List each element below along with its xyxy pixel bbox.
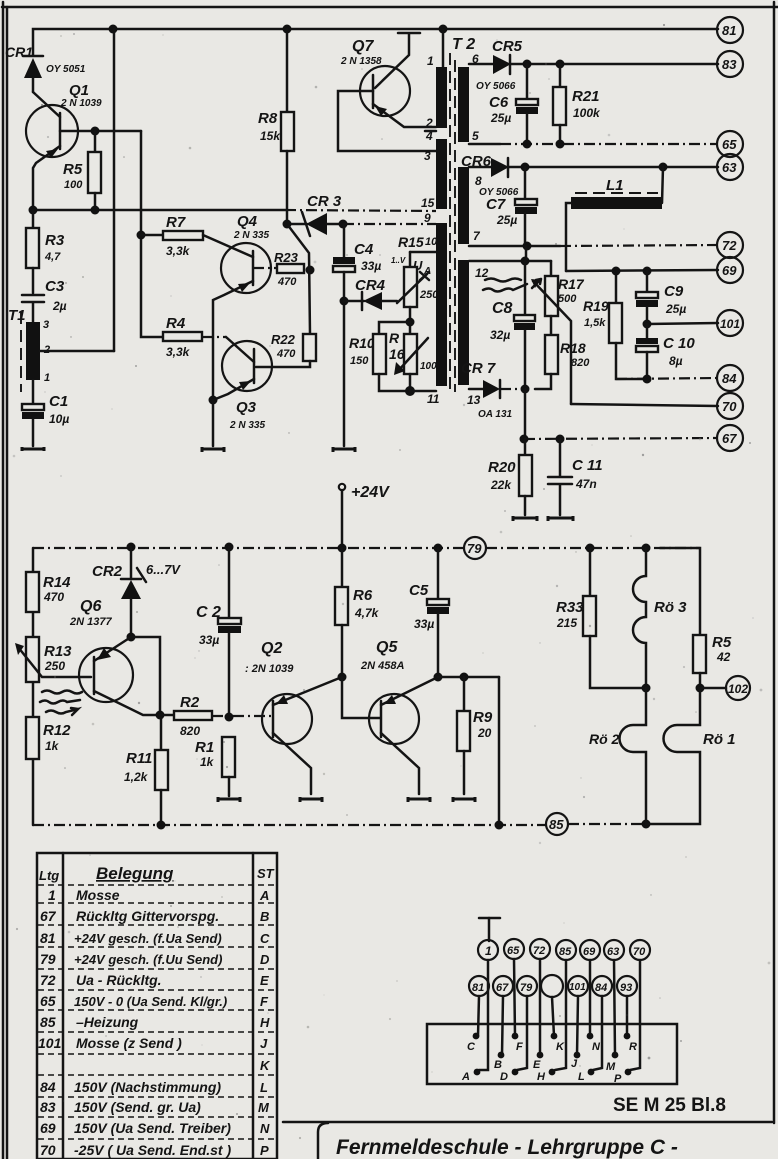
svg-text:R10: R10 (349, 335, 375, 351)
connector wire 1-A (479, 960, 488, 1070)
svg-text:83: 83 (40, 1099, 56, 1115)
diode CR6 (461, 153, 525, 198)
svg-text:93: 93 (620, 982, 632, 994)
svg-text:Q6: Q6 (80, 598, 101, 615)
svg-text:Ua - Rückltg.: Ua - Rückltg. (76, 972, 162, 988)
resistor R5 (63, 131, 101, 210)
junction R2 left node (156, 711, 165, 720)
svg-text:CR1: CR1 (5, 44, 33, 60)
resistor R8 (258, 29, 294, 224)
svg-text:+24V gesch. (f.Ua Send): +24V gesch. (f.Ua Send) (74, 931, 222, 946)
svg-text:R5: R5 (63, 161, 83, 178)
resistor R4 (163, 315, 254, 362)
connector wire 85-H (555, 960, 566, 1070)
svg-text:R2: R2 (180, 694, 200, 711)
heater Rö1 (646, 688, 736, 824)
terminal 72 (717, 232, 743, 258)
transformer T1 (8, 29, 114, 403)
connector circle 67 (493, 976, 513, 996)
transistor Q4 (213, 213, 271, 400)
table row 1 Mosse A (48, 887, 269, 903)
svg-text:70: 70 (633, 946, 646, 958)
junction CR4 node (340, 297, 349, 306)
svg-text:: 2N 1039: : 2N 1039 (245, 663, 294, 675)
capacitor C4 (333, 224, 381, 446)
svg-text:R6: R6 (353, 587, 373, 604)
T2 pin label 9 (424, 211, 431, 225)
diode CR4 (344, 277, 397, 310)
svg-text:84: 84 (40, 1079, 56, 1095)
table row 84 L (40, 1079, 268, 1095)
svg-text:C 10: C 10 (663, 335, 695, 352)
resistor R12 (26, 717, 71, 759)
svg-text:33µ: 33µ (199, 633, 219, 647)
svg-text:Fernmeldeschule - Lehrgruppe: Fernmeldeschule - Lehrgruppe C - (336, 1136, 678, 1159)
svg-text:R3: R3 (45, 232, 65, 249)
table row separators dashed (38, 885, 276, 1139)
svg-text:42: 42 (716, 650, 731, 664)
wire bus79 right corner to R5 (660, 548, 700, 635)
junction C11 top (556, 435, 565, 444)
T2 pin label 10 (425, 236, 438, 248)
table row 69 N (40, 1120, 270, 1136)
resistor R21 (553, 64, 601, 145)
junction CR7/C8/R18 (521, 385, 530, 440)
junction bus85 x646 (642, 820, 651, 829)
svg-text:2 N 335: 2 N 335 (229, 420, 265, 431)
terminal 79 (464, 537, 486, 559)
connector pin P (614, 1069, 631, 1085)
svg-text:F: F (260, 994, 269, 1009)
svg-text:70: 70 (40, 1142, 56, 1158)
svg-text:-25V ( Ua Send. End.st ): -25V ( Ua Send. End.st ) (74, 1142, 231, 1158)
connector circle 83 (617, 976, 637, 996)
table row 81 C (40, 930, 270, 946)
svg-text:2 N 335: 2 N 335 (233, 230, 269, 241)
terminal 70 (717, 393, 743, 419)
table row 85 H (40, 1014, 270, 1030)
junction C9 top (643, 267, 652, 276)
svg-text:R4: R4 (166, 315, 186, 332)
terminal 63 (717, 154, 743, 180)
svg-text:4,7k: 4,7k (354, 606, 380, 620)
connector pin J (571, 1052, 580, 1070)
junction C2/R1 node (225, 713, 234, 722)
svg-text:C7: C7 (486, 196, 506, 213)
table row K empty (260, 1058, 271, 1073)
svg-text:A: A (461, 1071, 470, 1083)
svg-text:R: R (629, 1041, 637, 1053)
svg-text:9: 9 (424, 211, 431, 225)
connector pin B (494, 1052, 504, 1071)
resistor R2 (160, 694, 273, 738)
capacitor C7 (486, 167, 537, 246)
svg-text:32µ: 32µ (490, 328, 510, 342)
heater Rö3 (633, 548, 687, 688)
svg-text:3: 3 (424, 149, 431, 163)
svg-text:3: 3 (43, 319, 49, 331)
svg-text:3,3k: 3,3k (166, 345, 191, 359)
connector circle 84 (592, 976, 612, 996)
svg-text:OY 5051: OY 5051 (46, 64, 86, 75)
svg-text:2N 458A: 2N 458A (360, 660, 404, 672)
wire CR2 node to R2 node (131, 637, 160, 715)
junction top bus x443 (439, 25, 448, 34)
svg-text:500: 500 (558, 293, 577, 305)
junction C10 bottom (643, 375, 652, 384)
svg-text:H: H (537, 1071, 546, 1083)
svg-text:20: 20 (477, 726, 492, 740)
svg-text:N: N (592, 1041, 601, 1053)
transformer T2 winding bar right 3 (pins 12-13) (458, 260, 469, 385)
svg-text:100k: 100k (573, 106, 601, 120)
svg-text:C1: C1 (49, 393, 68, 410)
svg-text:16: 16 (389, 346, 405, 362)
svg-text:84: 84 (595, 982, 607, 994)
ground below C4 (333, 447, 355, 452)
svg-text:C3: C3 (45, 278, 65, 295)
transistor Q3 (213, 341, 272, 431)
junction C5 bottom node (434, 673, 500, 682)
transformer T2 winding bar right 1 (pins 6-5) (458, 67, 469, 142)
transformer T2 core dashed (450, 53, 455, 392)
wire Q1 base drop x141 (141, 131, 163, 337)
svg-text:R: R (389, 330, 400, 346)
transformer T2 winding bar left 2 (pins 4-3) (436, 139, 447, 209)
svg-text:K: K (260, 1058, 271, 1073)
svg-text:E: E (260, 973, 269, 988)
connector pin E (533, 1052, 543, 1071)
terminal 83 (717, 51, 743, 77)
svg-text:84: 84 (722, 371, 737, 386)
svg-text:85: 85 (40, 1014, 56, 1030)
svg-text:Q5: Q5 (376, 639, 398, 656)
svg-text:65: 65 (722, 137, 737, 152)
wire 83 node (527, 63, 718, 66)
svg-text:6...7V: 6...7V (146, 562, 181, 577)
junction bus x342 (338, 544, 347, 553)
svg-text:R15: R15 (398, 234, 424, 250)
diode CR7 (461, 360, 525, 420)
svg-text:3,3k: 3,3k (166, 244, 191, 258)
transistor Q7 (338, 33, 436, 151)
svg-text:102: 102 (728, 682, 748, 696)
connector circle 101 (568, 976, 588, 996)
svg-text:70: 70 (722, 399, 737, 414)
svg-text:1..V: 1..V (391, 256, 406, 265)
junction bus85 x499 (495, 821, 504, 830)
table row 72 E (40, 972, 269, 988)
svg-text:2: 2 (425, 116, 433, 130)
wire bus 79 (33, 547, 700, 549)
svg-text:+24V gesch. (f.Uu Send): +24V gesch. (f.Uu Send) (74, 952, 222, 967)
connector wire 65-F (514, 959, 515, 1036)
svg-text:2N 1377: 2N 1377 (69, 616, 112, 628)
table row 67 Rückltg B (40, 908, 269, 924)
wire 67 node (524, 438, 718, 439)
svg-text:25µ: 25µ (665, 302, 686, 316)
svg-text:C6: C6 (489, 94, 509, 111)
junction bus x646 (642, 544, 651, 553)
connector circle 79 (517, 976, 537, 996)
wire 84 node (616, 378, 718, 379)
terminal +24V (339, 484, 390, 548)
svg-text:1: 1 (485, 944, 492, 958)
T2 pin label 11 (427, 392, 440, 406)
svg-text:1k: 1k (45, 739, 60, 753)
svg-text:1: 1 (44, 372, 50, 384)
junction y210 x33 (29, 206, 38, 215)
svg-text:C5: C5 (409, 582, 429, 599)
svg-text:L: L (260, 1080, 268, 1095)
svg-text:Mosse: Mosse (76, 887, 120, 903)
svg-text:150V (Nachstimmung): 150V (Nachstimmung) (74, 1079, 221, 1095)
svg-text:81: 81 (40, 930, 56, 946)
junction C9 bottom (643, 320, 652, 329)
svg-text:8µ: 8µ (669, 354, 683, 368)
svg-text:F: F (516, 1041, 523, 1053)
svg-text:1: 1 (48, 887, 56, 903)
border frame top (2, 6, 778, 9)
svg-text:C: C (467, 1041, 476, 1053)
svg-text:69: 69 (40, 1120, 56, 1136)
svg-text:1,2k: 1,2k (124, 770, 149, 784)
table Belegung frame (37, 853, 277, 1159)
resistor R23 (253, 250, 304, 288)
connector circle 69 (580, 940, 600, 960)
svg-text:4,7: 4,7 (44, 251, 61, 263)
svg-text:83: 83 (722, 57, 737, 72)
svg-text:2 N 1039: 2 N 1039 (60, 98, 102, 109)
connector box (427, 1024, 677, 1084)
capacitor C2 (196, 547, 241, 717)
svg-text:150V (Send. gr. Ua): 150V (Send. gr. Ua) (74, 1099, 201, 1115)
svg-text:470: 470 (276, 348, 296, 360)
resistor R20 (488, 439, 532, 515)
junction R5 bottom (696, 684, 727, 693)
svg-text:69: 69 (722, 263, 737, 278)
svg-text:T 2: T 2 (452, 36, 475, 53)
ground below R9 (453, 797, 475, 802)
svg-text:150V (Ua Send. Treiber): 150V (Ua Send. Treiber) (74, 1120, 231, 1136)
svg-text:R21: R21 (572, 88, 600, 105)
ground below R1 (218, 797, 240, 802)
svg-text:81: 81 (722, 23, 736, 38)
wire CR3 to T2 pin9 (343, 223, 436, 225)
svg-text:22k: 22k (490, 478, 512, 492)
terminal 65 (717, 131, 743, 157)
junction R5 top (91, 127, 100, 136)
svg-text:–Heizung: –Heizung (76, 1014, 139, 1030)
svg-text:B: B (260, 909, 269, 924)
T2 pin label 7 (473, 229, 481, 243)
svg-text:72: 72 (40, 972, 56, 988)
resistor R5 (42) (693, 634, 732, 688)
resistor R3 (26, 210, 65, 293)
svg-text:1: 1 (427, 54, 434, 68)
junction R20 top (520, 435, 529, 444)
resistor R11 (124, 715, 168, 825)
diode CR5 (469, 38, 527, 92)
svg-text:R9: R9 (473, 709, 493, 726)
svg-text:A: A (259, 888, 269, 903)
svg-text:Q4: Q4 (237, 213, 258, 230)
connector wire 81-C (478, 996, 479, 1036)
transistor Q5 (360, 639, 438, 794)
svg-text:P: P (260, 1143, 269, 1158)
svg-text:C4: C4 (354, 241, 374, 258)
svg-text:15k: 15k (260, 129, 281, 143)
svg-text:H: H (260, 1015, 270, 1030)
svg-text:R17: R17 (558, 276, 585, 292)
connector circle 81 (469, 976, 489, 996)
svg-text:25µ: 25µ (496, 213, 517, 227)
svg-text:8: 8 (475, 174, 482, 188)
ground below R20 (513, 516, 537, 521)
connector pin M (606, 1052, 618, 1073)
junction CR3 anode x343 (339, 220, 348, 229)
resistor R10 (349, 322, 410, 391)
svg-text:R20: R20 (488, 459, 516, 476)
border frame left (double line) (3, 2, 7, 1159)
svg-text:15: 15 (421, 196, 435, 210)
svg-text:13: 13 (467, 393, 481, 407)
svg-text:79: 79 (520, 982, 533, 994)
T2 pin label 5 (472, 129, 479, 143)
terminal 67 (717, 425, 743, 451)
annotation scribble under Q6 (40, 691, 82, 716)
ground below Q2 (300, 797, 322, 802)
junction top bus x287 (283, 25, 292, 34)
svg-text:R1: R1 (195, 739, 214, 756)
inductor L1 (566, 167, 663, 271)
junction C6 top (523, 60, 532, 69)
svg-text:79: 79 (40, 951, 56, 967)
junction y210 x95 (91, 206, 100, 215)
wire 69 node (566, 270, 718, 271)
wire top supply bus y29 (33, 29, 718, 55)
capacitor C10 (636, 324, 695, 379)
svg-text:12: 12 (475, 266, 489, 280)
svg-text:CR 7: CR 7 (461, 360, 496, 377)
wire 72 node (469, 245, 718, 246)
svg-text:D: D (500, 1071, 508, 1083)
transistor Q2 (245, 640, 342, 794)
junction R23 right x310 (306, 266, 315, 275)
svg-text:OA 131: OA 131 (478, 409, 513, 420)
heater Rö2 (589, 688, 646, 824)
connector wire 72-E (539, 959, 542, 1055)
svg-text:J: J (571, 1058, 578, 1070)
connector pin H (537, 1069, 555, 1083)
capacitor C11 (548, 439, 603, 515)
resistor R6 (335, 548, 380, 677)
ground below C11 (548, 516, 573, 521)
svg-text:150V - 0 (Ua Send. Kl/gr.): 150V - 0 (Ua Send. Kl/gr.) (74, 994, 227, 1009)
svg-text:T1: T1 (8, 307, 26, 324)
svg-text:215: 215 (556, 616, 577, 630)
connector pin L (578, 1069, 594, 1083)
svg-text:63: 63 (607, 946, 619, 958)
svg-text:R14: R14 (43, 574, 71, 591)
wire R8 node to R23/R22 (287, 224, 310, 334)
svg-text:Q2: Q2 (261, 640, 282, 657)
svg-text:CR4: CR4 (355, 277, 386, 294)
wire node bus y210 to T2 pin15 (33, 210, 436, 211)
junction R15/R16/R10 (406, 318, 415, 327)
wire bus 85 (33, 824, 646, 825)
svg-text:10: 10 (425, 236, 438, 248)
svg-text:L1: L1 (606, 177, 624, 194)
T2 pin label 2 (425, 116, 433, 130)
connector wire 70-P (630, 960, 640, 1070)
terminal 85 (546, 813, 568, 835)
terminal 81 (717, 17, 743, 43)
svg-text:2 N 1358: 2 N 1358 (340, 56, 382, 67)
junction Q6 emitter node (127, 633, 136, 642)
svg-text:R5: R5 (712, 634, 732, 651)
junction top bus x113 (109, 25, 118, 34)
svg-text:D: D (260, 952, 270, 967)
svg-text:150: 150 (350, 355, 369, 367)
terminal 69 (717, 257, 743, 283)
title box Fernmeldeschule (318, 1123, 678, 1159)
T2 pin label 3 (424, 149, 431, 163)
junction bus x438 (434, 544, 443, 553)
svg-text:85: 85 (559, 946, 572, 958)
resistor R19 (583, 271, 647, 379)
svg-text:101: 101 (720, 317, 740, 331)
junction bus x229 (225, 543, 234, 552)
svg-text:R33: R33 (556, 599, 584, 616)
junction R19 top (612, 267, 621, 276)
connector wire 84-L (593, 996, 602, 1070)
svg-text:+24V: +24V (351, 484, 390, 501)
connector circle 70 (630, 940, 650, 960)
potentiometer R17 (531, 261, 585, 404)
svg-text:J: J (260, 1036, 268, 1051)
svg-text:R11: R11 (126, 750, 152, 767)
junction Q3/Q4 emitters x213 (209, 396, 218, 447)
transformer T2 label (452, 36, 475, 53)
wire left rail (32, 548, 35, 825)
svg-text:33µ: 33µ (414, 617, 434, 631)
svg-text:C9: C9 (664, 283, 684, 300)
svg-text:67: 67 (40, 908, 57, 924)
svg-text:33µ: 33µ (361, 259, 381, 273)
capacitor C5 (409, 548, 449, 677)
junction R6 bottom node (338, 673, 381, 719)
svg-text:100: 100 (420, 361, 437, 372)
svg-text:N: N (260, 1121, 270, 1136)
T2 pin label 4 (425, 129, 436, 143)
svg-text:11: 11 (427, 392, 440, 406)
border frame bottom rule (283, 1121, 772, 1124)
svg-text:72: 72 (722, 238, 737, 253)
capacitor C6 (489, 64, 538, 145)
svg-text:SE M 25 Bl.8: SE M 25 Bl.8 (613, 1095, 726, 1116)
junction pin12 node (521, 257, 530, 266)
junction bus x131 (127, 543, 136, 552)
ground below Q5 (408, 797, 430, 802)
svg-text:250: 250 (44, 659, 65, 673)
junction R21 bottom (556, 140, 565, 149)
svg-text:820: 820 (180, 724, 200, 738)
T2 pin label 1 (427, 54, 434, 68)
diode CR2 (zener) (92, 547, 181, 637)
resistor R18 (535, 335, 590, 389)
connector pin F (512, 1033, 523, 1053)
